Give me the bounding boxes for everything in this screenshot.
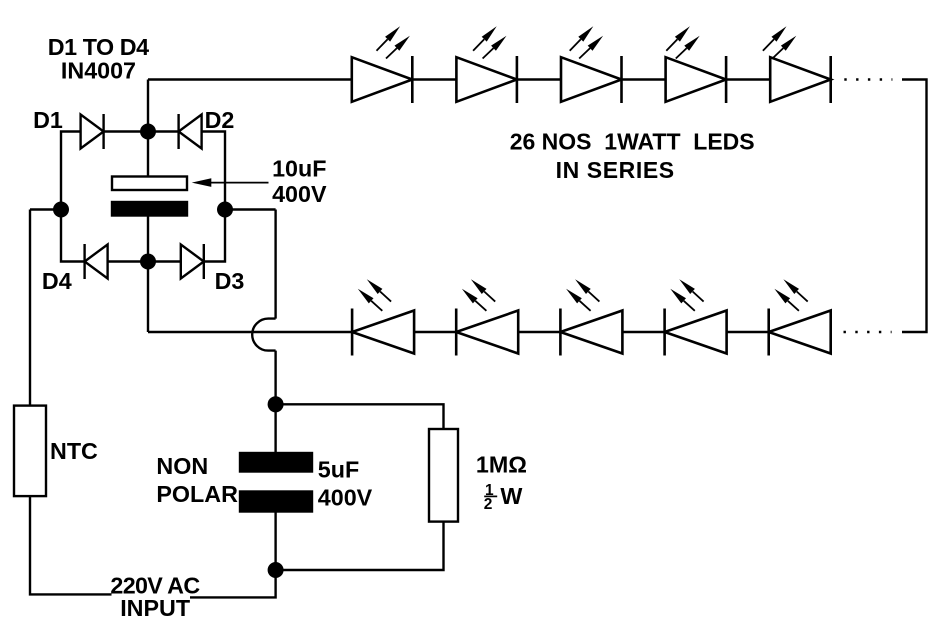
svg-text:D4: D4 xyxy=(42,268,72,294)
node: bridge top junction xyxy=(140,124,156,140)
resistor R1 1M ohm body xyxy=(429,429,458,522)
svg-text:D2: D2 xyxy=(205,107,235,133)
LED D-bot4 (bottom row 1W white LED, pointing left) xyxy=(665,279,727,355)
LED D-top3 (top row 1W white LED, pointing right) xyxy=(561,56,622,103)
svg-text:2: 2 xyxy=(484,496,493,513)
diode D4 (IN4007, bottom-left arm, pointing left) xyxy=(85,245,108,279)
svg-text:D1: D1 xyxy=(33,107,63,133)
light emission arrows above top LED 5 xyxy=(763,26,796,58)
svg-text:D1 TO D4: D1 TO D4 xyxy=(48,34,149,60)
LED D-top5 (top row 1W white LED, pointing right) xyxy=(770,56,831,103)
svg-text:IN SERIES: IN SERIES xyxy=(556,157,675,183)
node: bridge right AC junction xyxy=(217,202,233,218)
LED D-top4 (top row 1W white LED, pointing right) xyxy=(666,56,727,103)
wire: dropper branch vertical (lower) xyxy=(274,351,276,405)
node: junction above 5uF capacitor xyxy=(268,396,284,412)
wire: bridge top output up to LED string feed xyxy=(147,80,149,132)
annotation arrow pointing at C1 xyxy=(211,182,269,184)
LED D-bot2 (bottom row 1W white LED, pointing left) xyxy=(456,279,518,355)
LED D-bot3 (bottom row 1W white LED, pointing left) xyxy=(560,279,622,355)
wire: hop over LED return rail xyxy=(252,319,275,351)
wire: lower junction to AC input wire xyxy=(190,570,276,597)
node: junction below 5uF capacitor xyxy=(268,562,284,578)
wire: top LED row rail xyxy=(148,78,830,80)
node: bridge left AC junction xyxy=(53,202,69,218)
light emission arrows above top LED 2 xyxy=(473,26,506,58)
svg-text:26 NOS 1WATT LEDS: 26 NOS 1WATT LEDS xyxy=(510,129,755,155)
svg-text:INPUT: INPUT xyxy=(120,595,190,621)
wire: resistor R1 bottom to junction xyxy=(276,522,444,570)
capacitor C2 5uF 400V top plate xyxy=(240,453,312,472)
capacitor C1 10uF 400V bottom plate xyxy=(112,202,187,216)
svg-text:IN4007: IN4007 xyxy=(61,57,136,83)
wire: bridge right node to dropper branch xyxy=(225,208,276,210)
diode D2 (IN4007, top-right arm, pointing left) xyxy=(179,115,202,149)
LED D-bot1 (bottom row 1W white LED, pointing left) xyxy=(352,279,414,355)
wire: junction to resistor R1 top xyxy=(276,404,444,429)
node: bridge bottom junction xyxy=(140,254,156,270)
capacitor C1 10uF 400V top plate xyxy=(112,177,187,191)
svg-text:POLAR: POLAR xyxy=(156,481,238,507)
wire: bottom LED row rail xyxy=(148,331,831,333)
capacitor C2 5uF 400V bottom plate xyxy=(240,492,312,512)
LED D-bot5 (bottom row 1W white LED, pointing left) xyxy=(769,279,831,355)
wire: bridge top node to capacitor C1 xyxy=(147,132,149,177)
svg-text:10uF: 10uF xyxy=(272,156,326,182)
light emission arrows above top LED 1 xyxy=(377,26,410,58)
LED D-top1 (top row 1W white LED, pointing right) xyxy=(352,56,413,103)
wire: top-right corner down right side xyxy=(902,80,927,333)
svg-text:NTC: NTC xyxy=(50,438,98,464)
wire: capacitor C2 to lower junction xyxy=(274,512,276,571)
wire: NTC branch vertical (upper) xyxy=(29,210,31,406)
wire: capacitor C1 to bridge bottom node xyxy=(147,216,149,262)
svg-text:400V: 400V xyxy=(318,484,373,510)
LED D-top2 (top row 1W white LED, pointing right) xyxy=(456,56,517,103)
diode D1 (IN4007, top-left arm, pointing right) xyxy=(81,115,104,149)
svg-text:NON: NON xyxy=(156,453,208,479)
wire: NTC to AC input corner xyxy=(30,496,112,594)
wire: top row dotted continuation xyxy=(844,78,892,80)
diode D3 (IN4007, bottom-right arm, pointing right) xyxy=(181,245,204,279)
svg-text:W: W xyxy=(500,483,522,509)
light emission arrows above top LED 3 xyxy=(570,26,603,58)
wire: bridge left node to NTC branch xyxy=(30,208,61,210)
light emission arrows above top LED 4 xyxy=(666,26,699,58)
svg-text:5uF: 5uF xyxy=(318,457,359,483)
wire: junction to capacitor C2 xyxy=(274,404,276,453)
wire: dropper branch vertical (upper) xyxy=(274,210,276,319)
wire: bridge bottom output down to bottom rail xyxy=(147,262,149,333)
svg-text:400V: 400V xyxy=(272,181,327,207)
wire: bridge rectifier loop xyxy=(61,132,225,262)
thermistor NTC body xyxy=(14,406,46,497)
wire: bottom row dotted continuation xyxy=(844,331,892,333)
svg-text:D3: D3 xyxy=(215,268,245,294)
svg-text:1MΩ: 1MΩ xyxy=(476,452,527,478)
